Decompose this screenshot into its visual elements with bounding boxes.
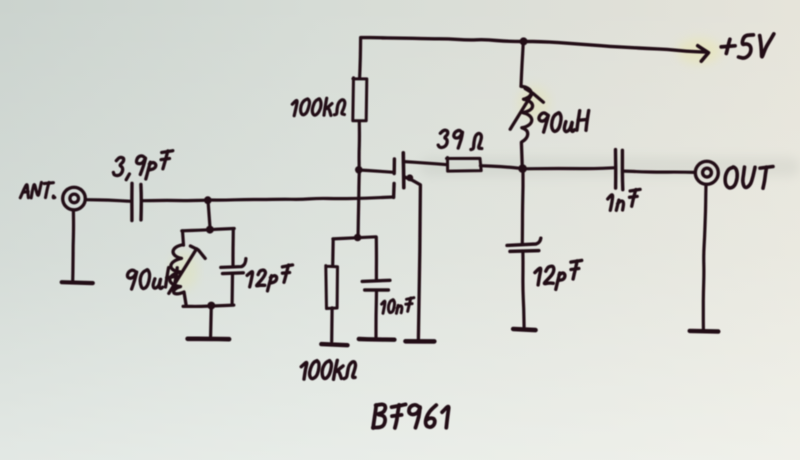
- capacitor C1 3,9pF right plate: [139, 185, 143, 220]
- inductor L1 arrow barb: [190, 246, 205, 258]
- label OUT: [725, 167, 737, 188]
- wire ANT to C1: [86, 200, 131, 202]
- wire node A down to tank: [208, 200, 210, 228]
- node tank bottom junction: [207, 302, 215, 310]
- wire R2 to ground: [330, 308, 334, 342]
- ground ANT bar: [62, 280, 93, 285]
- capacitor C5 1nF right plate: [621, 150, 625, 189]
- ground R2 bar: [321, 344, 347, 345]
- inductor L2 arrow barb: [525, 89, 543, 103]
- capacitor C2 12pF bottom plate: [223, 271, 244, 275]
- ground C3 bar: [359, 337, 395, 342]
- transistor U1 gate1 bar: [392, 184, 396, 198]
- +5V arrowhead: [698, 46, 709, 62]
- label C2 12pF: [247, 272, 253, 287]
- capacitor C1 3,9pF left plate: [130, 183, 134, 220]
- wire divider top bar: [333, 237, 376, 239]
- ground OUT lead: [703, 185, 706, 330]
- label R3 39Ohm: [438, 130, 448, 147]
- ground tank lead: [209, 306, 213, 337]
- label ANT.: [20, 185, 28, 198]
- ground tank bar: [188, 336, 230, 341]
- wire C3 to ground: [374, 291, 378, 338]
- resistor R2 100k: [326, 266, 338, 309]
- wire node D to C5: [522, 168, 613, 169]
- inductor L2 arrow shaft: [510, 95, 531, 130]
- capacitor C5 1nF left plate: [614, 150, 618, 189]
- transistor U1 gate2 bar: [393, 159, 397, 174]
- label BF961: [373, 405, 376, 428]
- label C4 12pF: [535, 268, 541, 285]
- capacitor C4 12pF bottom plate: [510, 249, 539, 253]
- transistor U1 channel: [401, 153, 405, 188]
- wire rail to L2: [521, 42, 523, 87]
- node tank top junction: [206, 226, 214, 234]
- wire +5V supply rail: [361, 38, 706, 53]
- label R2 100kOhm: [301, 363, 307, 380]
- label R1 100kOhm: [292, 100, 297, 115]
- connector ANT inner: [70, 194, 79, 203]
- capacitor C3 10nF bottom plate: [365, 288, 389, 291]
- transistor U1 source lead: [404, 177, 420, 339]
- capacitor C3 10nF top plate: [362, 280, 390, 281]
- node G2 junction: [355, 166, 363, 174]
- label C1 3,9pF: [113, 157, 123, 175]
- wire R1 to node G2: [357, 121, 361, 170]
- ground source: [406, 339, 435, 344]
- connector OUT inner: [703, 168, 712, 177]
- wire C5 to OUT: [624, 171, 695, 172]
- ground C4 bar: [513, 329, 535, 330]
- wire node G2 down to divider: [358, 169, 359, 237]
- capacitor C2 12pF top plate: [221, 259, 246, 268]
- wire C2 to tank bottom: [231, 274, 235, 305]
- label L1 90uH: [127, 270, 136, 278]
- resistor R3 39Ohm: [447, 158, 482, 172]
- node D junction: [518, 164, 527, 173]
- wire tank left drop: [183, 231, 184, 245]
- label C3 10nF: [382, 301, 385, 313]
- wire rail to R1: [360, 38, 361, 79]
- label +5V: [721, 46, 735, 47]
- label C5 1nF: [608, 195, 613, 210]
- wire divider right drop: [375, 237, 378, 279]
- transistor U1 substrate dot: [406, 174, 413, 181]
- wire node A to gate1: [208, 197, 394, 200]
- inductor L1 arrow shaft: [169, 249, 197, 294]
- wire node D to C4: [521, 168, 525, 243]
- connector ANT outer: [63, 187, 86, 210]
- wire C4 to ground: [523, 252, 524, 326]
- capacitor C4 12pF top plate: [507, 238, 541, 245]
- connector OUT outer: [695, 161, 718, 184]
- ground ANT lead: [71, 210, 75, 281]
- wire divider left drop: [331, 239, 335, 266]
- wire tank right drop: [231, 229, 235, 267]
- wire tank bottom bar: [183, 305, 234, 306]
- node divider junction: [354, 234, 362, 242]
- wire C1 to node A: [142, 199, 207, 203]
- wire G2 to gate: [359, 170, 394, 172]
- paper shading band: [420, 157, 800, 177]
- node A junction: [204, 196, 212, 204]
- wire tank top bar: [182, 229, 234, 231]
- wire drain to R3: [405, 162, 448, 165]
- wire R3 to node D: [480, 166, 522, 169]
- inductor L1 90uH coil: [170, 245, 186, 307]
- label L2 90uH: [539, 113, 548, 121]
- ground OUT bar: [690, 329, 719, 334]
- node rail junction: [520, 37, 528, 45]
- resistor R1 100k: [353, 78, 367, 121]
- inductor L2 90uH coil: [521, 86, 533, 168]
